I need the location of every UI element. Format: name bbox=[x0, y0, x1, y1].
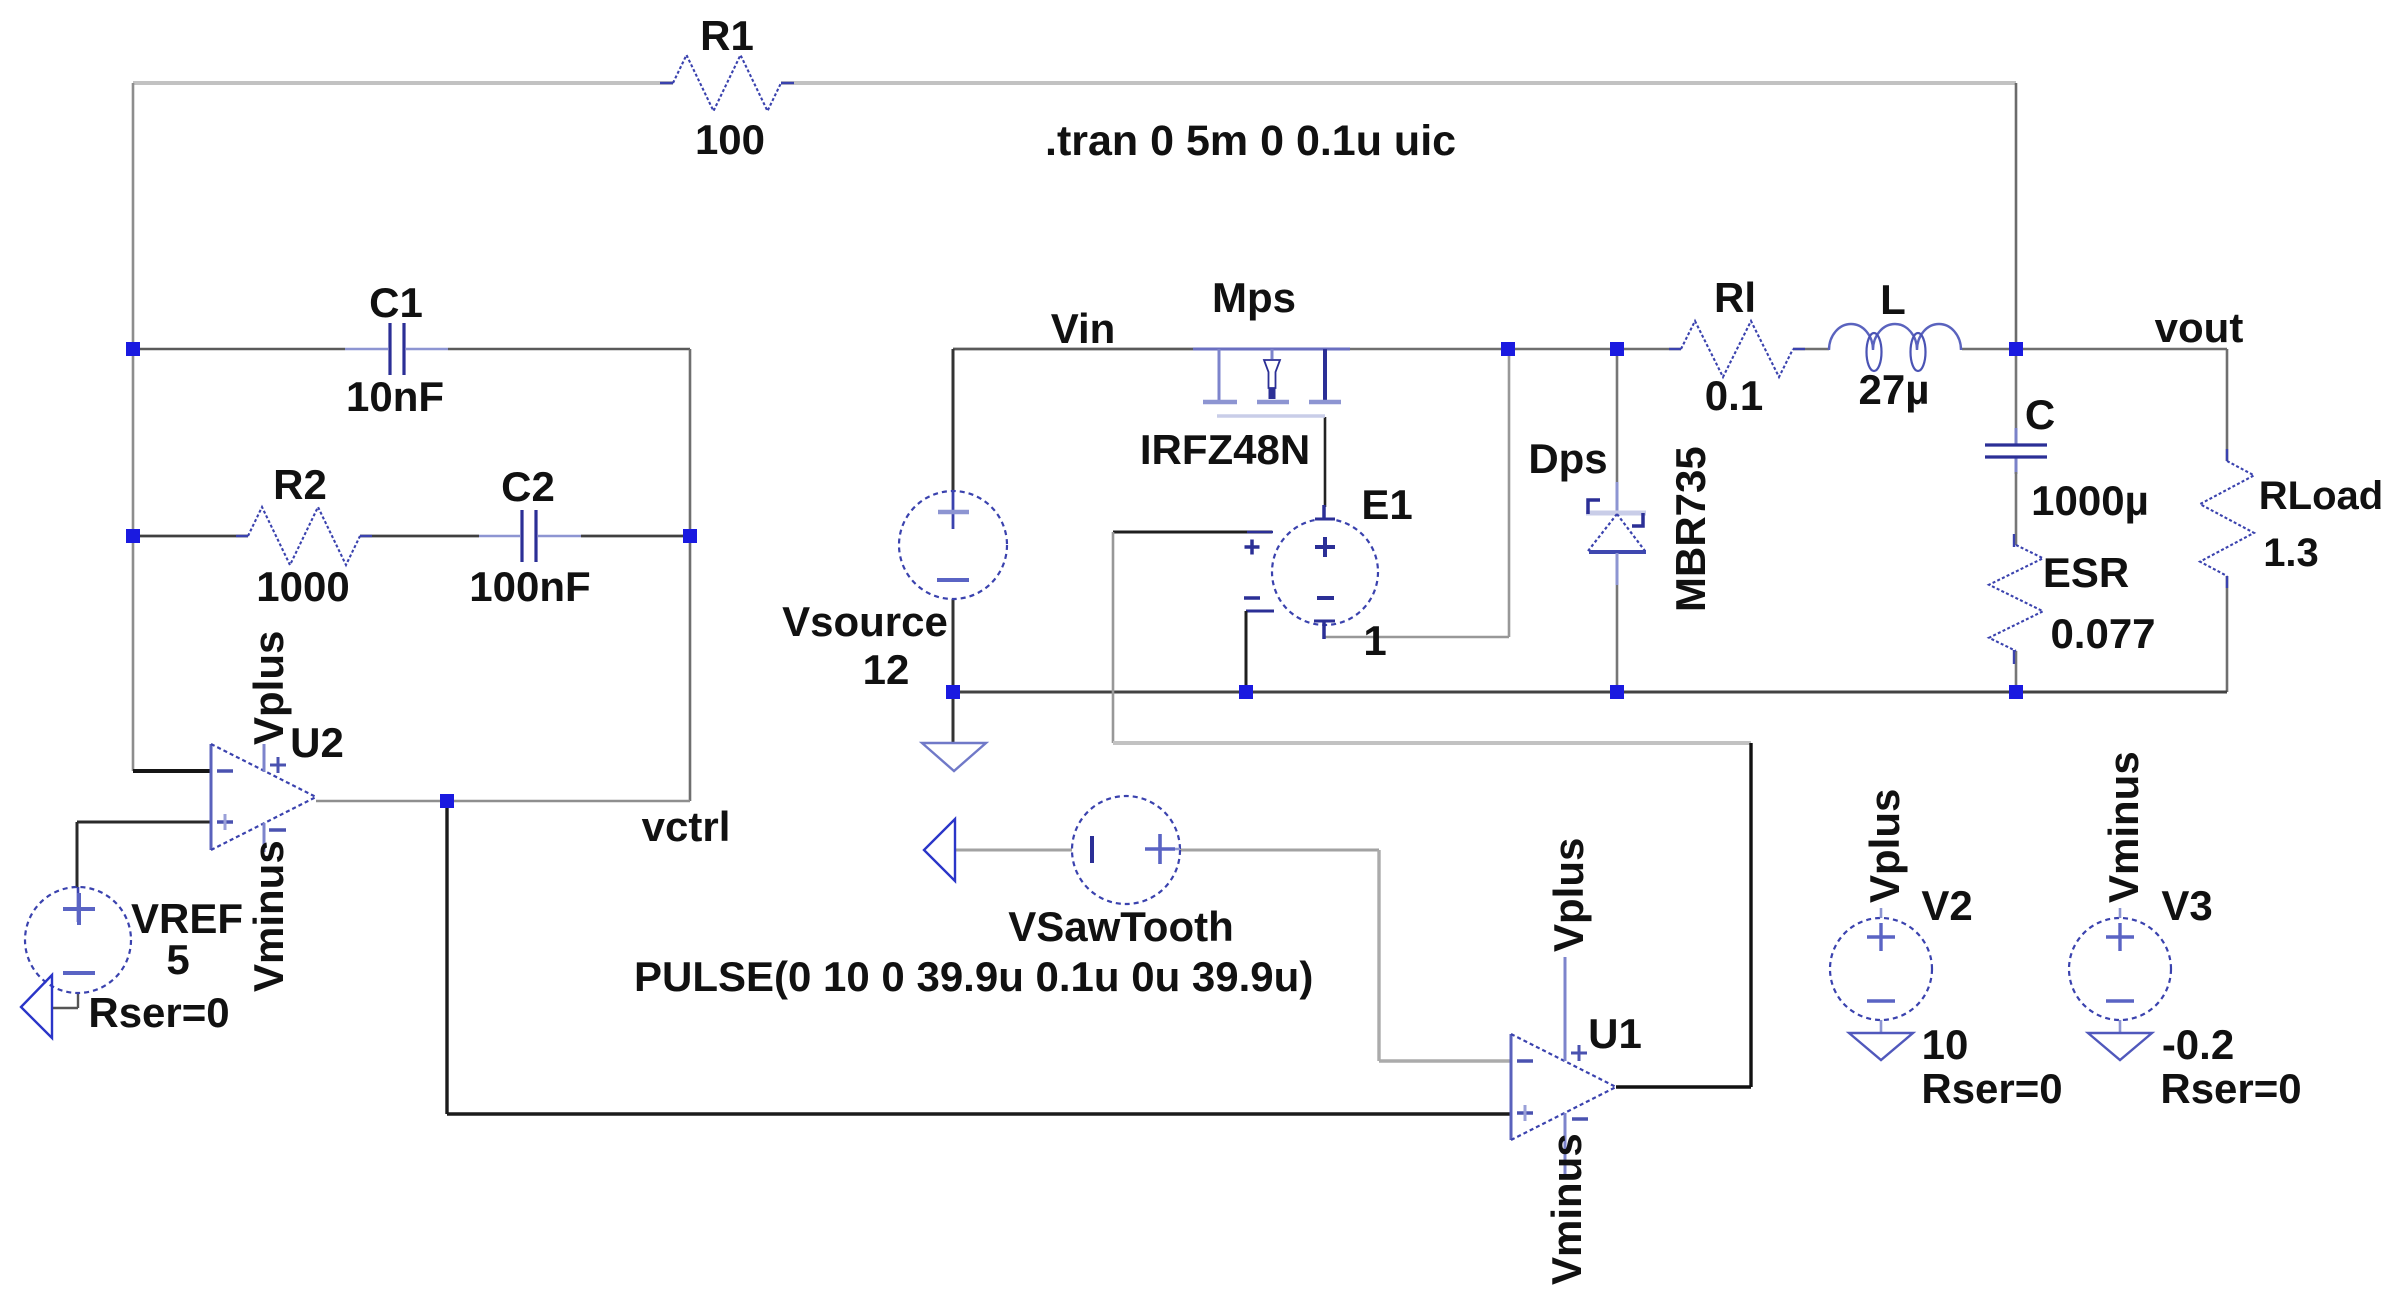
svg-text:ESR: ESR bbox=[2043, 549, 2129, 596]
svg-text:1000µ: 1000µ bbox=[2031, 477, 2149, 524]
svg-text:Rl: Rl bbox=[1714, 274, 1756, 321]
svg-text:vout: vout bbox=[2155, 304, 2244, 351]
svg-text:-0.2: -0.2 bbox=[2162, 1021, 2234, 1068]
svg-text:PULSE(0 10 0 39.9u 0.1u 0u 39.: PULSE(0 10 0 39.9u 0.1u 0u 39.9u) bbox=[634, 953, 1313, 1000]
svg-text:0.1: 0.1 bbox=[1705, 372, 1763, 419]
svg-text:Rser=0: Rser=0 bbox=[88, 989, 229, 1036]
svg-text:100nF: 100nF bbox=[469, 563, 590, 610]
svg-text:R2: R2 bbox=[273, 461, 327, 508]
svg-text:U2: U2 bbox=[290, 719, 344, 766]
svg-text:C1: C1 bbox=[369, 279, 423, 326]
svg-text:Vplus: Vplus bbox=[1545, 838, 1592, 952]
svg-text:Vminus: Vminus bbox=[1543, 1133, 1590, 1285]
svg-text:VSawTooth: VSawTooth bbox=[1008, 903, 1234, 950]
svg-text:Rser=0: Rser=0 bbox=[1921, 1065, 2062, 1112]
svg-text:0.077: 0.077 bbox=[2050, 610, 2155, 657]
svg-text:Vin: Vin bbox=[1051, 305, 1116, 352]
svg-text:Vsource: Vsource bbox=[782, 598, 948, 645]
svg-text:10nF: 10nF bbox=[346, 373, 444, 420]
svg-text:Vminus: Vminus bbox=[245, 840, 292, 992]
svg-text:Rser=0: Rser=0 bbox=[2160, 1065, 2301, 1112]
svg-text:U1: U1 bbox=[1588, 1010, 1642, 1057]
svg-text:R1: R1 bbox=[700, 12, 754, 59]
svg-text:V2: V2 bbox=[1921, 882, 1972, 929]
svg-text:C: C bbox=[2025, 391, 2055, 438]
svg-text:MBR735: MBR735 bbox=[1667, 446, 1714, 612]
svg-text:Dps: Dps bbox=[1528, 435, 1607, 482]
svg-text:VREF: VREF bbox=[131, 895, 243, 942]
svg-text:vctrl: vctrl bbox=[642, 803, 731, 850]
svg-text:1: 1 bbox=[1363, 617, 1386, 664]
svg-text:12: 12 bbox=[863, 646, 910, 693]
svg-text:Mps: Mps bbox=[1212, 274, 1296, 321]
svg-text:RLoad: RLoad bbox=[2259, 474, 2383, 518]
svg-text:V3: V3 bbox=[2161, 882, 2212, 929]
svg-text:Vminus: Vminus bbox=[2100, 751, 2147, 903]
svg-text:10: 10 bbox=[1922, 1021, 1969, 1068]
svg-text:5: 5 bbox=[166, 936, 189, 983]
svg-text:IRFZ48N: IRFZ48N bbox=[1140, 426, 1310, 473]
svg-text:.tran 0 5m 0 0.1u uic: .tran 0 5m 0 0.1u uic bbox=[1045, 117, 1456, 165]
svg-text:C2: C2 bbox=[501, 463, 555, 510]
svg-text:100: 100 bbox=[695, 116, 765, 163]
svg-text:Vplus: Vplus bbox=[1861, 789, 1908, 903]
svg-text:27µ: 27µ bbox=[1859, 366, 1930, 413]
svg-text:L: L bbox=[1880, 276, 1906, 323]
svg-text:1.3: 1.3 bbox=[2263, 531, 2319, 575]
svg-text:Vplus: Vplus bbox=[245, 631, 292, 745]
svg-text:1000: 1000 bbox=[256, 563, 349, 610]
svg-text:E1: E1 bbox=[1361, 481, 1412, 528]
